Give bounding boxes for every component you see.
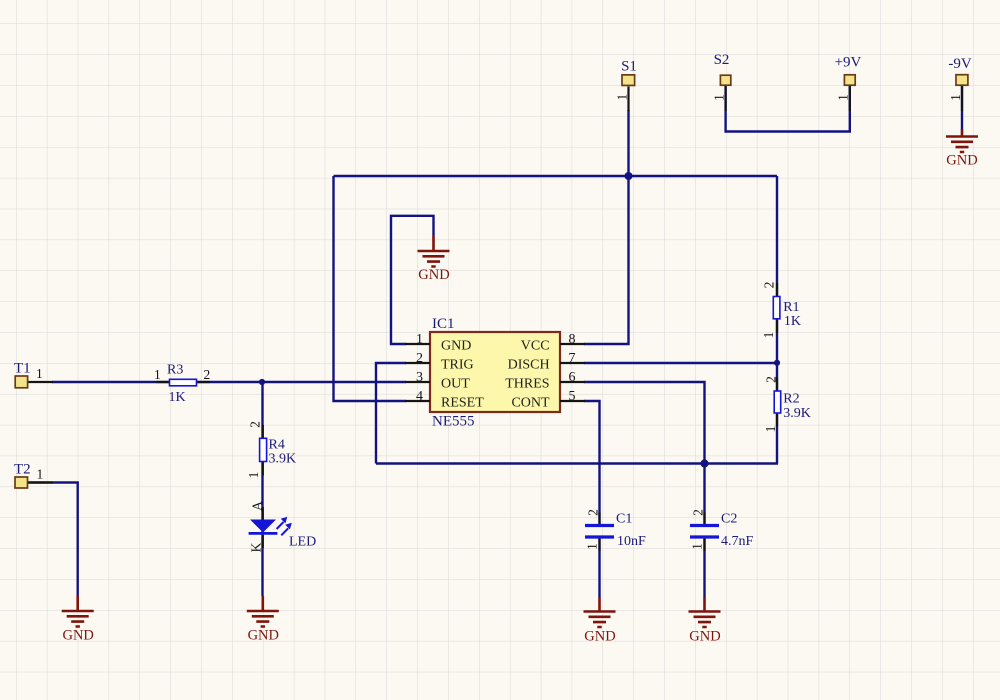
svg-text:GND: GND — [584, 629, 615, 645]
svg-text:+9V: +9V — [835, 55, 862, 71]
svg-text:1: 1 — [154, 367, 161, 382]
wire: T2 to ground run — [28, 483, 78, 597]
svg-text:1: 1 — [948, 94, 963, 101]
resistor R1 1K vertical — [761, 282, 801, 339]
svg-text:2: 2 — [586, 509, 601, 516]
svg-text:1: 1 — [246, 472, 261, 479]
port S2 pad and pin 1 — [711, 52, 730, 111]
svg-text:CONT: CONT — [511, 395, 550, 410]
wire: -9V down to ground — [961, 86, 963, 130]
wire: OUT horizontal from T1/R3 junction to pin3 — [52, 381, 406, 383]
node: junction S1/top wire — [625, 172, 633, 180]
ground symbol below -9V port — [946, 129, 978, 169]
wire: C1 lower lead to ground — [598, 539, 600, 598]
svg-text:S2: S2 — [714, 52, 730, 68]
resistor R2 3.9K vertical — [763, 376, 811, 432]
wire: pin5 CONT right and down to C1 — [584, 401, 600, 525]
svg-text:GND: GND — [441, 338, 471, 353]
svg-text:2: 2 — [762, 282, 777, 289]
pin 6 THRES of IC1 — [505, 370, 585, 391]
wire: S1 vertical down to VCC pin 8 — [584, 110, 629, 344]
svg-text:TRIG: TRIG — [441, 357, 474, 372]
svg-text:T2: T2 — [14, 462, 31, 478]
svg-text:5: 5 — [569, 389, 576, 404]
svg-text:4: 4 — [416, 389, 423, 404]
wire: R4/LED branch from OUT junction down to ground — [261, 382, 263, 596]
svg-text:R4: R4 — [269, 438, 285, 453]
svg-text:GND: GND — [248, 628, 279, 644]
svg-text:K: K — [249, 542, 264, 552]
svg-text:3.9K: 3.9K — [269, 452, 297, 467]
svg-text:RESET: RESET — [441, 395, 484, 410]
ground symbol below LED — [247, 596, 279, 644]
svg-text:GND: GND — [946, 153, 977, 169]
wire: C2 lower lead to ground — [703, 539, 705, 598]
port T2 pad and pin 1 — [14, 462, 53, 489]
svg-text:1: 1 — [36, 366, 43, 381]
pin 3 OUT of IC1 — [405, 370, 470, 391]
wire: black pin stubs at component leads — [157, 283, 778, 551]
node: junction OUT/R3/R4 — [259, 379, 265, 385]
wire: bottom horizontal net TRIG/THRES/C2/R2 — [376, 462, 778, 464]
wire: left vertical from top wire down to RESET — [334, 176, 407, 401]
port S1 pad and pin 1 — [614, 59, 637, 112]
svg-text:2: 2 — [416, 351, 423, 366]
svg-text:NE555: NE555 — [432, 414, 475, 430]
svg-text:1: 1 — [690, 543, 705, 550]
capacitor C1 10nF — [585, 509, 647, 550]
svg-text:A: A — [250, 501, 265, 511]
svg-text:1K: 1K — [784, 314, 801, 329]
wire: pin1 GND loop up and right to ground — [391, 216, 434, 344]
node: junction R1/R2/DISCH — [774, 360, 780, 366]
wire: TRIG vertical from pin2 down to bottom net — [376, 363, 406, 464]
pin 2 TRIG of IC1 — [405, 351, 474, 372]
wire: pin7 DISCH to R1/R2 junction — [584, 362, 777, 364]
wire: S2 to +9V U-link — [726, 86, 850, 132]
ground symbol below C1 — [584, 597, 616, 645]
ground symbol below T2 — [62, 596, 94, 644]
pin 4 RESET of IC1 — [405, 389, 484, 410]
svg-text:2: 2 — [204, 367, 211, 382]
svg-text:2: 2 — [248, 421, 263, 428]
svg-text:2: 2 — [691, 509, 706, 516]
svg-text:R3: R3 — [167, 363, 183, 378]
svg-text:IC1: IC1 — [432, 316, 455, 332]
svg-text:6: 6 — [569, 370, 576, 385]
svg-text:C2: C2 — [721, 512, 737, 527]
svg-text:10nF: 10nF — [617, 534, 646, 549]
svg-text:LED: LED — [289, 535, 316, 550]
svg-text:4.7nF: 4.7nF — [721, 534, 754, 549]
svg-text:S1: S1 — [621, 59, 637, 75]
node: junction C2/bottom net — [700, 459, 708, 467]
LED D1 with anode/cathode marks — [249, 501, 317, 553]
svg-text:R1: R1 — [783, 300, 799, 315]
svg-text:1: 1 — [416, 332, 423, 347]
svg-text:VCC: VCC — [521, 338, 550, 353]
svg-text:1: 1 — [763, 426, 778, 433]
svg-text:7: 7 — [569, 351, 576, 366]
svg-text:C1: C1 — [616, 512, 632, 527]
svg-text:1K: 1K — [169, 390, 186, 405]
ground symbol below C2 — [689, 597, 721, 645]
svg-text:1: 1 — [836, 94, 851, 101]
wire: pin6 THRES right and down to C2 — [584, 382, 705, 525]
port +9V pad and pin 1 — [835, 55, 862, 112]
svg-text:OUT: OUT — [441, 376, 470, 391]
port T1 pad and pin 1 — [14, 361, 53, 388]
port -9V pad and pin 1 — [948, 56, 972, 111]
pin 8 VCC of IC1 — [521, 332, 585, 353]
capacitor C2 4.7nF — [690, 509, 754, 550]
svg-text:3: 3 — [416, 370, 423, 385]
svg-text:R2: R2 — [783, 392, 799, 407]
svg-text:-9V: -9V — [948, 56, 971, 72]
pin 1 GND of IC1 — [405, 332, 471, 353]
svg-text:3.9K: 3.9K — [783, 406, 811, 421]
svg-text:8: 8 — [569, 332, 576, 347]
svg-text:GND: GND — [62, 628, 93, 644]
svg-text:2: 2 — [764, 376, 779, 383]
svg-text:T1: T1 — [14, 361, 31, 377]
svg-text:GND: GND — [689, 629, 720, 645]
resistor R3 1K horizontal — [154, 363, 210, 406]
svg-text:1: 1 — [711, 94, 726, 101]
svg-text:GND: GND — [418, 267, 449, 283]
pin 7 DISCH of IC1 — [508, 351, 585, 372]
op-amp/timer IC1 NE555 body — [430, 316, 560, 430]
svg-text:1: 1 — [761, 332, 776, 339]
svg-text:1: 1 — [585, 543, 600, 550]
svg-text:THRES: THRES — [505, 376, 549, 391]
svg-text:1: 1 — [37, 467, 44, 482]
wire: top horizontal net S1/VCC/RESET/R1 — [334, 175, 778, 177]
ground symbol near IC pin1 — [418, 236, 450, 283]
resistor R4 3.9K vertical — [246, 421, 296, 478]
pin 5 CONT of IC1 — [511, 389, 585, 410]
svg-text:DISCH: DISCH — [508, 357, 550, 372]
svg-text:1: 1 — [614, 94, 629, 101]
wire: R1 branch vertical from top wire through junction to R2 and bottom net — [776, 176, 778, 464]
